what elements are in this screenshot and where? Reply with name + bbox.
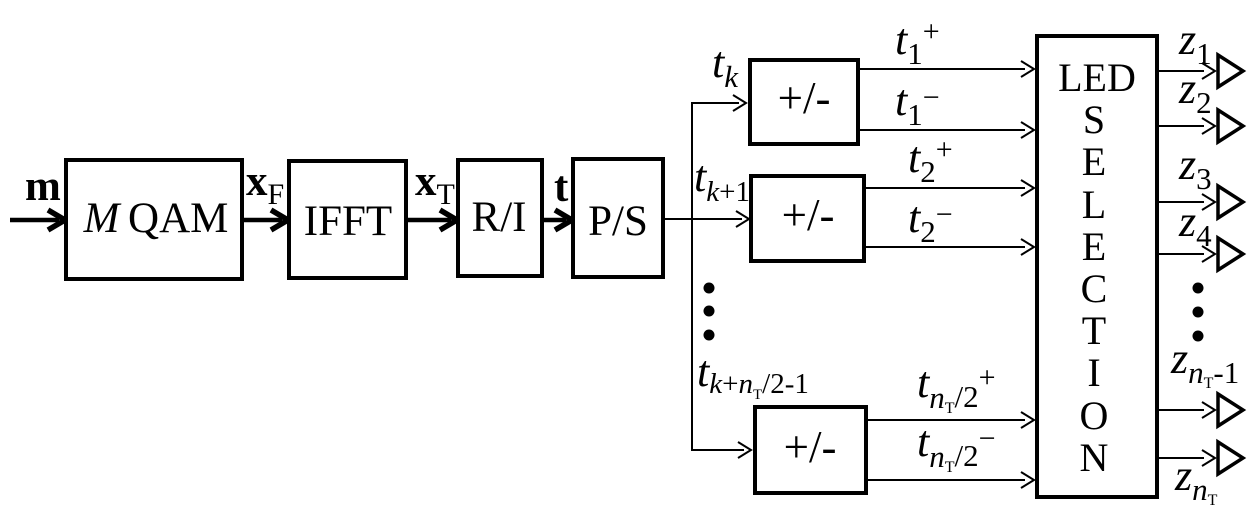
label t_1^+ [895,15,940,71]
label m [25,163,61,210]
label t_2^- [908,193,953,249]
svg-text:I: I [1087,350,1100,395]
label t_nT/2^- [917,417,996,476]
svg-text:IFFT: IFFT [304,198,392,245]
label t_k+nT/2-1 [697,347,809,403]
LED D2 triangle [1218,110,1243,142]
block IFFT [289,161,406,278]
LED D3 triangle [1218,186,1243,218]
svg-text:S: S [1083,97,1105,142]
wire output z2 [1159,118,1215,134]
block P/S [573,159,663,277]
LED D5 triangle [1218,394,1243,426]
svg-text:tk+1: tk+1 [694,152,750,208]
svg-text:tk+nT/2-1: tk+nT/2-1 [697,347,809,403]
svg-text:LED: LED [1058,55,1136,100]
LED D4 triangle [1218,238,1243,270]
wire t1- to LED selection [860,122,1034,138]
wire output z_nT-1 [1159,402,1215,418]
label x_F [246,158,284,211]
label z_3 [1178,140,1212,196]
svg-text:C: C [1081,266,1108,311]
svg-text:t1+: t1+ [895,15,940,71]
svg-text:+/-: +/- [782,190,835,240]
label t_2^+ [908,133,953,189]
svg-text:xT: xT [415,158,455,211]
svg-text:t2−: t2− [908,193,953,249]
wire IFFT to R/I [408,210,457,230]
wire branch bus vertical [691,103,693,450]
wire P/S output to plus-minus 2 [665,211,749,227]
svg-text:z2: z2 [1178,64,1212,120]
label t_nT/2^+ [917,358,996,417]
ellipsis dots right column [1193,283,1204,342]
label t_k+1 [694,152,750,208]
svg-text:xF: xF [246,158,284,211]
svg-text:T: T [1082,308,1106,353]
block R/I [458,160,542,276]
wire branch to plus-minus 3 [691,442,751,458]
svg-text:z1: z1 [1178,15,1212,71]
label t_k [712,38,739,94]
wire output z3 [1159,194,1215,210]
svg-text:m: m [25,163,61,210]
label z_nT-1 [1170,334,1239,392]
svg-text:N: N [1080,435,1109,480]
svg-text:t2+: t2+ [908,133,953,189]
svg-text:+/-: +/- [784,422,837,472]
wire output z1 [1159,63,1215,79]
wire input arrow m [10,210,65,230]
wire R/I to P/S [544,210,572,230]
block plus-minus 3 [755,407,866,493]
svg-text:O: O [1080,393,1109,438]
svg-text:M QAM: M QAM [83,195,229,242]
wire output z4 [1159,246,1215,262]
wire M QAM to IFFT [244,210,288,230]
wire output z_nT [1159,450,1215,466]
label z_4 [1178,197,1212,253]
svg-text:tk: tk [712,38,739,94]
wire tnT/2- to LED selection [868,472,1034,488]
svg-text:znT-1: znT-1 [1170,334,1239,392]
svg-text:z3: z3 [1178,140,1212,196]
svg-text:tnT/2−: tnT/2− [917,417,996,476]
block plus-minus 1 [750,60,858,144]
svg-text:L: L [1082,182,1106,227]
wire t1+ to LED selection [860,61,1034,77]
label t [554,164,569,211]
svg-text:E: E [1082,139,1106,184]
svg-text:tnT/2+: tnT/2+ [917,358,996,417]
block LED selection [1037,36,1157,497]
label x_T [415,158,455,211]
block plus-minus 2 [751,176,864,261]
svg-text:t: t [554,164,569,211]
wire tnT/2+ to LED selection [868,412,1034,428]
wire t2+ to LED selection [866,180,1034,196]
ellipsis dots left column [704,283,715,341]
LED D6 triangle [1218,442,1243,474]
label z_2 [1178,64,1212,120]
wire t2- to LED selection [866,239,1034,255]
wire branch to plus-minus 1 [691,95,746,111]
svg-text:P/S: P/S [588,198,648,245]
svg-text:+/-: +/- [778,73,831,123]
svg-text:R/I: R/I [472,194,527,241]
svg-text:E: E [1082,224,1106,269]
label z_nT [1174,451,1218,509]
svg-text:z4: z4 [1178,197,1212,253]
LED D1 triangle [1218,55,1243,87]
label t_1^- [895,76,940,132]
block M QAM [66,160,242,279]
svg-text:t1−: t1− [895,76,940,132]
label z_1 [1178,15,1212,71]
